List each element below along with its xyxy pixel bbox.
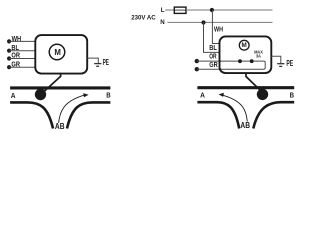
wire WH from L to box — [212, 10, 220, 44]
internal contact dot 2 — [250, 59, 254, 63]
pipe bottom wall A-side left diagram — [10, 102, 53, 128]
ground symbol left bar1 — [94, 63, 101, 65]
internal switch rectangle OR-GR — [220, 61, 265, 69]
pipe bottom wall A-side right diagram — [197, 102, 239, 128]
svg-text:OR: OR — [209, 53, 216, 60]
wire OR right — [197, 60, 221, 62]
wire N — [167, 21, 272, 23]
svg-text:PE: PE — [286, 59, 293, 68]
svg-text:BL: BL — [11, 45, 19, 52]
motor M2 circle — [239, 40, 249, 50]
svg-text:B: B — [290, 90, 295, 99]
pipe top wall left — [10, 86, 110, 89]
flow arrow left (AB to B) — [59, 95, 85, 123]
svg-text:3A: 3A — [256, 54, 262, 59]
flow arrowhead left — [83, 93, 88, 97]
svg-text:WH: WH — [12, 36, 22, 43]
pipe top wall right — [197, 86, 294, 89]
motor M1 circle — [49, 44, 65, 60]
svg-text:230V AC: 230V AC — [131, 15, 156, 22]
flow arrowhead right — [219, 93, 224, 97]
fuse F1 — [174, 7, 186, 13]
wire WH terminal dot — [7, 39, 11, 43]
wire GR terminal dot right — [195, 67, 199, 71]
svg-text:A: A — [11, 91, 16, 100]
pipe bottom wall B-side left diagram — [67, 102, 110, 128]
wire L before fuse — [165, 9, 174, 11]
PE wire right — [271, 56, 281, 63]
svg-text:A: A — [200, 90, 205, 99]
svg-text:B: B — [106, 91, 111, 100]
svg-text:GR: GR — [209, 62, 218, 69]
svg-text:OR: OR — [11, 53, 20, 60]
wire L after fuse — [186, 9, 273, 11]
wire BL terminal dot — [7, 49, 11, 53]
junction dot on N — [201, 20, 205, 24]
junction dot on L — [210, 8, 214, 12]
wire BL from N to box — [204, 23, 221, 53]
internal contact dot 1 — [238, 59, 242, 63]
svg-text:L: L — [161, 7, 165, 14]
fuse F1 inner line — [174, 9, 186, 11]
wire WH — [9, 40, 35, 42]
wire GR terminal dot — [7, 65, 11, 69]
valve stem left — [44, 74, 61, 92]
pipe bottom wall B-side right diagram — [253, 102, 294, 128]
svg-text:N: N — [160, 19, 165, 26]
PE wire left — [87, 58, 98, 63]
wire OR — [9, 58, 35, 60]
ground symbol right bar1 — [277, 63, 284, 65]
svg-text:M: M — [54, 48, 61, 57]
svg-text:PE: PE — [103, 58, 109, 67]
valve ball right — [257, 89, 268, 100]
valve ball left — [35, 89, 46, 100]
wire GR — [9, 66, 35, 68]
valve stem right — [246, 73, 261, 90]
actuator box left — [35, 35, 87, 74]
wire OR terminal dot — [7, 56, 11, 60]
svg-text:WH: WH — [214, 26, 223, 33]
svg-text:AB: AB — [55, 122, 65, 131]
svg-text:AB: AB — [240, 121, 250, 130]
actuator box right — [220, 36, 272, 73]
ground symbol right bar2 — [279, 65, 282, 67]
svg-text:BL: BL — [209, 45, 217, 52]
svg-text:M: M — [241, 42, 246, 49]
wire GR right — [197, 68, 221, 70]
wire OR terminal dot right — [195, 59, 199, 63]
svg-text:GR: GR — [11, 61, 20, 68]
wire BL — [9, 50, 35, 52]
flow arrow right (AB to A) — [223, 95, 248, 121]
ground symbol left bar2 — [96, 65, 99, 67]
